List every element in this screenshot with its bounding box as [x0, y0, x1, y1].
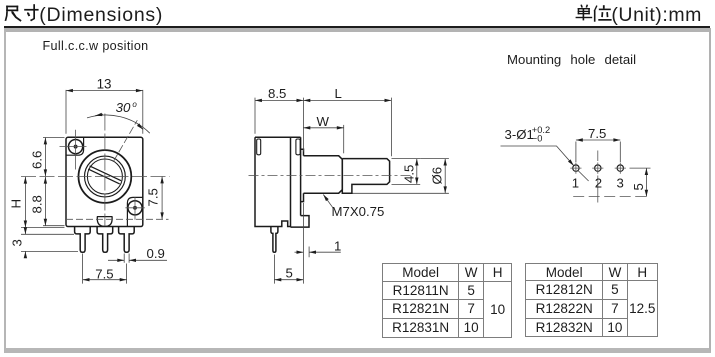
dimension W [303, 125, 343, 153]
svg-text:−0: −0 [532, 133, 543, 143]
CJK glyph 尺 [5, 6, 22, 22]
shaft center dashes [573, 196, 650, 198]
svg-text:8.8: 8.8 [30, 195, 45, 213]
screw S1 centerlines [60, 130, 87, 170]
leader to hole 1 [501, 146, 589, 181]
svg-text:2: 2 [595, 176, 602, 191]
svg-text:3-Ø1: 3-Ø1 [505, 127, 534, 142]
side pin [271, 227, 278, 252]
side right slot [296, 139, 300, 155]
side plate [301, 137, 304, 215]
shaft [342, 159, 389, 194]
screw S1 [69, 140, 83, 154]
dimension 1 [295, 203, 341, 284]
dimension 8.8 [43, 177, 65, 226]
dimension 13 [66, 90, 143, 134]
side body [255, 137, 301, 227]
dimension H [21, 177, 65, 228]
dimension 6.6 [43, 138, 65, 177]
title left: 尺寸(Dimensions) [0, 0, 400, 26]
dimension 0.9 [108, 254, 167, 263]
svg-text:W: W [317, 114, 330, 129]
knob 30deg pointer line [114, 120, 138, 161]
svg-text:13: 13 [97, 77, 112, 92]
CJK glyph 单 [580, 5, 583, 8]
dimension 3 [21, 229, 78, 258]
screw plate top-left [66, 138, 83, 155]
svg-text:5: 5 [631, 183, 646, 190]
dimension 5 [274, 255, 303, 284]
svg-text:0.9: 0.9 [147, 246, 165, 261]
dimension 7.5 right [161, 177, 163, 220]
svg-text:8.5: 8.5 [268, 86, 286, 101]
label M7X0.75 leader [323, 195, 333, 209]
bushing [304, 156, 343, 193]
CJK glyph 位 [594, 5, 598, 11]
side foot [291, 216, 310, 228]
screw S2 centerlines [125, 197, 144, 220]
svg-text:7.5: 7.5 [95, 266, 113, 281]
svg-text:o: o [132, 100, 137, 109]
svg-text:L: L [335, 86, 342, 101]
table 1 [382, 263, 511, 337]
knob middle circle [85, 156, 126, 197]
bottom keying notch [97, 217, 113, 227]
dimension 30deg arc [87, 114, 150, 133]
knob slot [88, 166, 121, 184]
table 2 [525, 263, 658, 337]
dashed line at lug level [66, 218, 169, 220]
dimension 7.5 holes [576, 140, 620, 162]
side centerline [249, 175, 414, 177]
svg-text:3: 3 [9, 239, 24, 246]
CJK glyph 寸 [24, 4, 38, 21]
svg-text:30: 30 [116, 100, 131, 115]
svg-text:7.5: 7.5 [146, 188, 161, 206]
side left slot [257, 139, 261, 155]
pin P2 [97, 227, 113, 252]
svg-text:1: 1 [334, 238, 341, 253]
knob vertical centerline [104, 114, 106, 227]
svg-text:4.5: 4.5 [402, 165, 417, 183]
dimension 7.5 bottom [83, 254, 127, 284]
dimension L [303, 98, 391, 157]
pin P1 [75, 227, 91, 252]
dimension 8.5 [255, 98, 303, 152]
knob outer circle [79, 150, 132, 203]
centerlines front view [21, 114, 170, 227]
svg-text:7.5: 7.5 [588, 126, 606, 141]
title right: 单位(Unit):mm [500, 0, 715, 26]
caption Full.c.c.w position [43, 39, 149, 53]
dimension 4.5 [392, 159, 421, 185]
svg-text:5: 5 [286, 265, 293, 280]
pin P3 [119, 227, 135, 252]
title underline [4, 26, 711, 28]
svg-text:M7X0.75: M7X0.75 [332, 204, 385, 219]
screw S2 [128, 201, 142, 215]
screw plate bottom-right [127, 197, 142, 226]
hole crosshairs [570, 151, 650, 203]
svg-text:6.6: 6.6 [30, 151, 45, 169]
knob horizontal centerline [21, 176, 170, 178]
hole 1 [573, 165, 624, 171]
hole2 centerline above/below [597, 151, 599, 162]
front body [66, 137, 143, 226]
dimension 5 holes [630, 168, 651, 197]
caption Mounting hole detail [507, 52, 636, 67]
svg-text:Ø6: Ø6 [430, 167, 445, 185]
svg-text:H: H [9, 199, 24, 209]
dimension dia6 [353, 159, 449, 194]
svg-text:1: 1 [572, 176, 579, 191]
svg-text:3: 3 [617, 176, 624, 191]
knob inner circle [87, 159, 122, 194]
